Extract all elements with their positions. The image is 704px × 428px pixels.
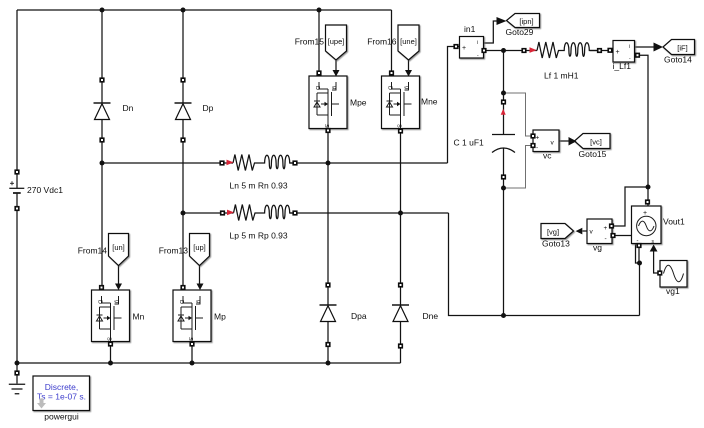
port in1 plus [454,45,458,49]
junction cap bottom vc [501,186,506,191]
gate arrowhead Mne [405,70,412,77]
junction top rail Dp [181,8,186,13]
wire Mne drain drop [391,10,393,76]
svg-text:Lp 5 m Rp 0.93: Lp 5 m Rp 0.93 [230,231,288,241]
svg-text:Goto13: Goto13 [542,239,570,249]
junction Ln Dpa [326,161,331,166]
svg-text:Mne: Mne [421,97,438,107]
wire top rail [17,9,392,11]
svg-text:g: g [331,86,337,89]
port vg plus [610,224,614,228]
junction bottom Dpa [326,361,331,366]
port C bottom [502,175,506,179]
resistor-inductor branch Ln [233,155,295,171]
svg-text:Mn: Mn [133,312,145,322]
svg-text:i: i [629,44,630,50]
port Vout minus [637,244,641,248]
current arrow C [501,109,506,115]
svg-text:-: - [605,236,607,243]
wire Dn branch upper [101,10,103,103]
wire Dn branch lower to Mn drain [101,120,103,291]
junction Lp left [181,211,186,216]
svg-text:S: S [187,337,193,341]
svg-text:+: + [604,225,608,232]
port Lp left [221,211,225,215]
wire Lf to iLf1 [590,50,613,52]
svg-text:g: g [114,300,120,303]
svg-text:Dne: Dne [423,311,439,321]
svg-text:vg: vg [593,243,602,253]
current measurement i_Lf1 [613,41,635,63]
ground symbol [9,384,25,394]
arrowhead Goto13 [576,228,583,235]
goto tag Goto14 [663,40,695,55]
mosfet Mne [382,76,420,129]
port Dp top [181,78,185,82]
wire Mpe drain drop [318,10,320,76]
svg-text:[une]: [une] [400,37,417,46]
wire goto13 stub [583,230,588,232]
svg-text:Goto14: Goto14 [664,55,692,65]
port Ln right [293,161,297,165]
port battery plus [15,170,19,174]
svg-text:Dpa: Dpa [351,311,367,321]
wire node Lp right [290,212,449,214]
svg-text:Goto15: Goto15 [579,149,607,159]
port Mne source [399,129,403,133]
junction Lp Dne [398,211,403,216]
wire iLf1 minus down to Vout plus [638,55,649,206]
mosfet Mpe [309,76,347,129]
port Mne drain [390,71,394,75]
port Dn anode top [100,78,104,82]
wire left rail top [16,10,18,188]
svg-text:D: D [178,300,184,304]
from tag From14 [109,234,129,266]
wire vg minus [613,236,640,264]
svg-text:S: S [396,124,402,128]
port iLf1 plus [608,49,612,53]
svg-text:[vc]: [vc] [590,138,602,147]
junction top rail Mpe [317,8,322,13]
wire in1 output to Lf [484,50,537,52]
port Dn bottom [100,138,104,142]
port vg1 out [658,271,662,275]
svg-text:-: - [536,145,538,152]
arrowhead Goto29 [497,17,507,25]
port Mp source [190,342,194,346]
current arrow Lp [227,210,234,216]
wire vc output [559,140,569,142]
svg-text:From13: From13 [159,246,189,256]
wire vg1 to s input [654,252,660,274]
junction Vout plus [646,185,651,190]
wire Dp branch upper [182,10,184,103]
svg-text:[up]: [up] [193,243,206,252]
junction in1 out cap [501,48,506,53]
controlled voltage source Vout1 [632,206,662,245]
svg-text:g: g [404,86,410,89]
svg-text:D: D [387,86,393,90]
powergui block [33,376,90,411]
wire capacitor node upper [503,51,505,135]
svg-text:vc: vc [543,151,552,161]
current arrow Ln [227,160,234,166]
current measurement in1 [460,37,484,59]
mosfet Mp [173,290,211,342]
wire capacitor node lower [503,149,505,316]
svg-text:S: S [106,337,112,341]
svg-text:vg1: vg1 [666,286,680,296]
port Mp drain [181,286,185,290]
arrowhead Goto14 [654,43,664,52]
junction bottom Mn [108,361,113,366]
svg-text:+: + [536,135,540,142]
port C top [502,100,506,104]
port Lp right [293,211,297,215]
wire Mp source [191,342,193,364]
wire From13 arrow [199,266,201,285]
gate arrowhead Mn [115,284,122,291]
wire left rail bottom [16,193,18,363]
svg-text:[upe]: [upe] [328,37,345,46]
svg-text:g: g [195,300,201,303]
wire From16 arrow [408,60,410,71]
port Mpe source [326,129,330,133]
wire Vout minus drop [638,248,640,264]
port in1 minus [482,49,486,53]
port Dne bottom [399,344,403,348]
goto tag Goto13 [541,224,574,239]
wire vc loop plus [504,93,533,136]
port vc minus [531,144,535,148]
svg-text:Lf 1 mH1: Lf 1 mH1 [544,71,579,81]
port Lf left [522,49,526,53]
junction Ln left [100,161,105,166]
svg-text:Ln 5 m Rn 0.93: Ln 5 m Rn 0.93 [230,181,288,191]
resistor-inductor branch Lp [234,205,296,221]
battery 270 Vdc1 [9,181,24,193]
goto tag Goto29 [507,14,540,28]
gate arrowhead Mpe [333,70,340,77]
resistor-inductor branch Lf [537,42,600,58]
svg-text:[vg]: [vg] [547,228,559,237]
svg-text:Mp: Mp [214,312,226,322]
port Ln left [220,161,224,165]
junction bottom ground [15,361,20,366]
port Dp bottom [181,138,185,142]
from tag From16 [398,25,419,60]
svg-text:C 1 uF1: C 1 uF1 [454,138,485,148]
svg-text:[un]: [un] [112,243,125,252]
junction bottom Mp [190,361,195,366]
svg-text:Goto29: Goto29 [506,27,534,37]
voltage measurement vc [533,130,559,152]
junction top rail Dn [100,8,105,13]
wire vc loop minus [504,146,533,189]
arrowhead Goto15 [569,137,577,146]
svg-text:in1: in1 [464,24,476,34]
from tag From15 [326,25,347,60]
wire in1 to Goto29 [484,21,497,43]
wire ground stub [16,363,18,384]
junction cap top vc [501,91,506,96]
wire Dp branch lower to Mp drain [182,120,184,291]
diode Dpa [320,305,337,322]
wire Mne source to Dne to bottom [400,129,402,364]
diode Dn [94,103,111,120]
wire From14 arrow [118,266,120,285]
port Mn drain [100,286,104,290]
svg-text:D: D [314,86,320,90]
port vg minus [611,234,615,238]
svg-text:Vout1: Vout1 [663,217,685,227]
port Dpa top [326,283,330,287]
svg-text:From14: From14 [78,246,108,256]
wire iLf1 output [635,46,655,48]
wire Vout minus riser [639,263,641,316]
voltage measurement vg [587,219,612,244]
wire bottom rail [17,362,401,364]
diode Dp [175,103,192,120]
wire riser Ln to in1 [448,47,460,164]
port Mn source [109,342,113,346]
port Dne top [399,283,403,287]
svg-text:[iF]: [iF] [677,44,687,53]
junction cap output rail [501,313,506,318]
port Mpe drain [317,71,321,75]
svg-text:270 Vdc1: 270 Vdc1 [27,185,63,195]
svg-text:From16: From16 [367,37,397,47]
svg-text:S: S [323,124,329,128]
svg-text:Mpe: Mpe [350,98,367,108]
capacitor C plates [492,135,515,153]
diode Dne [392,305,409,322]
svg-text:[ipn]: [ipn] [519,17,533,26]
mosfet Mn [92,290,130,342]
current arrow Lf [530,47,537,53]
wire node Lp left [183,212,234,214]
wire Lp drop to output rail [449,213,640,316]
svg-text:Dp: Dp [203,103,214,113]
svg-text:+: + [462,45,466,52]
goto tag Goto15 [575,134,611,149]
svg-text:powergui: powergui [44,412,79,422]
svg-text:+: + [616,49,620,56]
wire Mn source [110,342,112,364]
svg-text:Ts = 1e-07 s.: Ts = 1e-07 s. [37,392,86,402]
wire node Ln right [290,162,448,164]
wire vg plus [612,187,649,226]
svg-text:i: i [477,40,478,46]
svg-text:Discrete,: Discrete, [45,382,79,392]
sine source vg1 [660,261,687,288]
port ground [15,371,19,375]
from tag From13 [190,234,210,266]
svg-text:i_Lf1: i_Lf1 [613,61,632,71]
port vc plus [531,134,535,138]
svg-text:D: D [97,300,103,304]
port Lf right [598,49,602,53]
svg-text:From15: From15 [295,37,325,47]
wire From15 arrow [335,60,337,71]
junction Vout minus [637,261,642,266]
gate arrowhead Mp [197,284,204,291]
wire node Ln left [102,162,233,164]
wire Mpe source to Dpa to bottom [327,129,329,364]
port Dpa bottom [326,343,330,347]
arrowhead s input [650,245,658,252]
port battery minus [15,207,19,211]
port Vout plus [646,200,650,204]
svg-text:Dn: Dn [123,103,134,113]
port iLf1 minus [636,53,640,57]
